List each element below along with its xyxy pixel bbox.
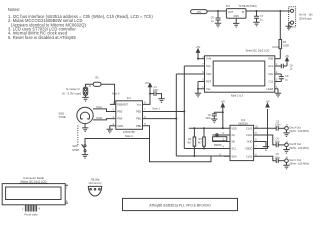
wire LCD RST pin (198, 81, 205, 83)
capacitor C5 (275, 153, 285, 163)
svg-text:Notes:: Notes: (8, 7, 20, 12)
wire SDA bus from LCD (175, 74, 177, 156)
svg-text:Vout: Vout (268, 64, 273, 68)
svg-text:RST: RST (206, 80, 212, 84)
svg-text:100R: 100R (283, 45, 289, 48)
wire encoder to ground (84, 124, 86, 128)
PLL IC2 Si5351A (219, 118, 259, 160)
svg-text:Out Gnd In: Out Gnd In (89, 181, 102, 185)
svg-text:SDA: SDA (206, 72, 212, 76)
svg-text:+5V: +5V (265, 101, 270, 104)
node Vss junction (197, 88, 199, 90)
svg-text:SCL: SCL (231, 148, 236, 151)
node C1 junction (149, 93, 151, 95)
svg-text:(20mA typ): (20mA typ) (299, 16, 312, 20)
svg-text:8: 8 (39, 208, 41, 211)
connector J4 Osc B (285, 141, 309, 150)
svg-text:+5V: +5V (285, 55, 290, 58)
ground under LCD RST/Vss (195, 93, 201, 97)
title block (123, 198, 238, 210)
node R3 bottom (203, 148, 205, 150)
svg-text:C1H: C1H (268, 72, 273, 76)
connector J3 Osc A (285, 125, 309, 134)
svg-text:100n: 100n (205, 117, 211, 120)
svg-text:VDDO: VDDO (245, 148, 252, 151)
ground under C7 (253, 22, 259, 26)
ground under C2 (211, 119, 217, 123)
svg-text:J3: J3 (285, 125, 288, 127)
ground under ATtiny (107, 129, 113, 133)
connector J1 S-meter input (62, 85, 92, 96)
wire SCL bus from LCD (183, 66, 185, 149)
capacitor C1 (150, 86, 162, 99)
svg-text:78L05a: 78L05a (91, 178, 100, 182)
wire R1 to ATtiny pin1 (101, 84, 115, 104)
svg-text:LEDA: LEDA (267, 87, 274, 91)
crystal X1 25MHz (212, 134, 227, 147)
svg-text:1: 1 (66, 187, 68, 190)
svg-text:R1: R1 (96, 77, 100, 80)
wire LCD V+B pin (198, 58, 205, 60)
svg-text:TC78L05(TO92): TC78L05(TO92) (238, 5, 256, 8)
wire LCD VDB to R4 (275, 58, 281, 60)
svg-text:Note 5: Note 5 (112, 93, 120, 96)
capacitor C4 (275, 137, 285, 147)
svg-text:(5kHz - 160 MHz): (5kHz - 160 MHz) (289, 147, 309, 150)
power +5V arrow at C8 (285, 55, 290, 63)
svg-text:1u: 1u (285, 78, 288, 81)
ground under LEDA (275, 93, 281, 97)
svg-text:CLK2: CLK2 (246, 155, 253, 158)
svg-text:IN: IN (242, 11, 245, 14)
wire ATtiny GND to ground (109, 126, 111, 130)
svg-text:Si5351A: Si5351A (238, 121, 248, 125)
node battery feed junction (279, 10, 281, 12)
wire CLK1 output (260, 135, 277, 145)
ground under SW2 (82, 155, 88, 159)
svg-text:4k7: 4k7 (198, 142, 203, 145)
ground under J1 (82, 97, 88, 101)
regulator IC3 78L05 (226, 5, 257, 18)
svg-text:PB4: PB4 (117, 117, 122, 121)
node SCL at PB2 (183, 111, 185, 113)
ground under encoder (82, 128, 88, 132)
svg-text:J1: J1 (88, 85, 91, 88)
svg-text:Note 2 & 3: Note 2 & 3 (231, 94, 244, 98)
svg-text:+5V: +5V (221, 101, 226, 104)
svg-text:TUNE: TUNE (59, 115, 66, 119)
wire CLK2 output (260, 156, 277, 160)
svg-text:IC1: IC1 (127, 96, 132, 100)
power +5V arrow at IC1 (145, 82, 152, 87)
wire LCD SCL pin (184, 65, 204, 67)
svg-text:Vcc: Vcc (137, 103, 142, 107)
svg-text:+5V: +5V (145, 82, 150, 85)
svg-text:XA: XA (231, 134, 235, 137)
svg-text:Osc C Out: Osc C Out (289, 159, 301, 162)
svg-text:100n: 100n (275, 156, 281, 159)
svg-text:C1L: C1L (269, 80, 274, 84)
svg-text:PB5/RST: PB5/RST (117, 103, 128, 107)
svg-text:OUT: OUT (228, 11, 234, 14)
switch SW2 STEP (72, 144, 86, 152)
svg-text:CLK0: CLK0 (246, 127, 253, 130)
wire SW2 to PB0 line (85, 139, 150, 145)
svg-text:VDD: VDD (231, 127, 236, 130)
resistor R2 4k7 (187, 128, 195, 156)
wire IC2 GND to ground (260, 142, 266, 147)
node R2 bottom (193, 155, 195, 157)
resistor R1 (93, 77, 101, 87)
resistor R3 4k7 (198, 128, 205, 148)
wire J1 to R1 (86, 84, 94, 87)
svg-text:IC3: IC3 (226, 5, 231, 8)
svg-text:+5V: +5V (196, 46, 201, 49)
node R3 top (203, 127, 205, 129)
svg-text:+5V: +5V (197, 10, 202, 14)
capacitor C3 (275, 120, 285, 130)
svg-text:SW2: SW2 (72, 144, 78, 148)
svg-text:(0 - 3.3V max): (0 - 3.3V max) (62, 91, 81, 95)
ground under J3 (283, 133, 289, 137)
ground under C1 (158, 99, 164, 103)
rotary encoder SW1 (59, 107, 94, 123)
svg-text:PB3: PB3 (117, 110, 122, 114)
notes text block (8, 7, 153, 40)
wire PB2 to SCL bus (149, 111, 185, 113)
LCD connector detail drawing (2, 176, 68, 217)
svg-text:PB0: PB0 (136, 124, 141, 128)
connector J2 battery input (289, 7, 314, 27)
svg-text:Vss: Vss (206, 87, 211, 91)
svg-text:GND: GND (247, 141, 253, 144)
wire J1 to ground (85, 95, 87, 97)
capacitor C9 charge pump (275, 74, 289, 82)
wire encoder PinA (93, 109, 110, 112)
svg-text:UC01: UC01 (272, 45, 279, 49)
connector J5 Osc C (285, 157, 309, 166)
node SDA at PB1 (175, 118, 177, 120)
svg-text:VDB: VDB (268, 57, 274, 61)
MCU IC1 ATtiny85 (110, 96, 149, 138)
svg-text:PB1: PB1 (136, 117, 141, 121)
svg-text:100n: 100n (275, 124, 281, 127)
node C2 junction (222, 111, 224, 113)
svg-text:5. Reset fuse is disabled at A: 5. Reset fuse is disabled at ATtiny85 (8, 35, 76, 40)
svg-text:Front view: Front view (25, 213, 39, 217)
wire PB1 to SDA bus (149, 118, 177, 120)
wire encoder PinB (93, 119, 110, 120)
ground under battery connector (286, 26, 292, 30)
wire SCL rail to Si5351 (184, 148, 224, 150)
wire Vcc to +5V (149, 87, 151, 105)
ground under IC2 (263, 147, 269, 151)
wire CLK0 output (260, 127, 277, 129)
svg-text:ATTINY85: ATTINY85 (123, 130, 135, 134)
svg-text:ATtiny85 &Si5351a PLL VFO & BF: ATtiny85 &Si5351a PLL VFO & BFO/CIO (149, 203, 211, 207)
svg-text:4k7: 4k7 (187, 142, 192, 145)
svg-text:(5kHz - 160 MHz): (5kHz - 160 MHz) (289, 163, 309, 166)
wire oval to regulator (207, 10, 227, 12)
svg-text:SCL: SCL (206, 64, 212, 68)
svg-text:J5: J5 (285, 157, 288, 159)
wire J4 to ground (286, 147, 288, 150)
power +5V arrow above LCD (196, 46, 201, 59)
svg-text:STEP: STEP (72, 148, 79, 152)
svg-text:PinB: PinB (97, 117, 103, 120)
svg-text:PinA: PinA (97, 106, 103, 109)
ground under C6 (215, 23, 221, 27)
LCD module UC01 (202, 45, 279, 97)
capacitor C6 (211, 11, 221, 23)
svg-text:GND: GND (117, 124, 123, 128)
connector +5V oval (191, 10, 208, 14)
svg-text:Serial I2C 16x2 LCD: Serial I2C 16x2 LCD (246, 49, 270, 53)
wire PB0 down and right (149, 126, 212, 162)
svg-text:PB2: PB2 (136, 110, 141, 114)
wire RST/Vss to ground (197, 82, 199, 94)
svg-text:(5kHz - 160 MHz): (5kHz - 160 MHz) (289, 130, 309, 133)
wire J3 to ground (286, 130, 288, 133)
wire LCD SDA pin (176, 73, 204, 75)
wire LCD Vss pin (198, 88, 205, 90)
svg-text:R4: R4 (283, 41, 287, 44)
svg-text:V+B: V+B (206, 57, 211, 61)
svg-text:SW1: SW1 (59, 111, 65, 115)
wire LCD LEDA to ground (275, 89, 278, 93)
svg-text:100n: 100n (153, 89, 159, 92)
mechanical link dotted (77, 126, 79, 146)
wire SW2 to ground (84, 152, 86, 155)
svg-text:GND: GND (233, 15, 239, 18)
svg-text:1u: 1u (211, 20, 214, 23)
ground under J4 (283, 150, 289, 154)
node LCD V+B junction (197, 58, 199, 60)
svg-text:Note 1: Note 1 (153, 108, 161, 111)
wire J5 to ground (286, 163, 288, 166)
svg-text:CLK1: CLK1 (246, 134, 253, 137)
svg-text:Osc A Out: Osc A Out (289, 127, 301, 130)
node C6 junction (217, 10, 219, 12)
svg-text:J4: J4 (285, 141, 288, 143)
svg-text:1u: 1u (260, 19, 263, 22)
wire VDD rail (189, 127, 224, 129)
capacitor C8 on Vout (275, 62, 294, 70)
svg-text:1: 1 (22, 208, 24, 211)
ground under J5 (283, 165, 289, 169)
wire regulator GND pin (235, 18, 237, 23)
capacitor C7 (254, 11, 264, 22)
svg-text:25MHz: 25MHz (214, 144, 223, 147)
wire VDDO to +5V (260, 109, 268, 149)
node VDD rail junction (222, 127, 224, 129)
wire SDA rail to Si5351 (176, 155, 230, 157)
svg-text:Vin 9v - 15v: Vin 9v - 15v (299, 13, 313, 17)
power +5V arrow at VDDO (265, 101, 270, 107)
svg-text:Note 4: Note 4 (125, 134, 133, 138)
svg-text:XB: XB (231, 141, 235, 144)
node C7 junction (256, 10, 258, 12)
power +5V arrow at IC2 VDD (221, 101, 226, 129)
regulator TO92 pinout detail (88, 178, 102, 196)
resistor R4 100R (279, 11, 289, 59)
svg-text:Osc B Out: Osc B Out (289, 143, 301, 146)
capacitor C2 (205, 112, 222, 120)
wire regulator IN rail (246, 10, 290, 12)
ground under regulator (233, 23, 239, 27)
svg-text:1u: 1u (290, 68, 293, 71)
svg-text:100n: 100n (275, 141, 281, 144)
svg-text:SDA: SDA (231, 155, 236, 158)
